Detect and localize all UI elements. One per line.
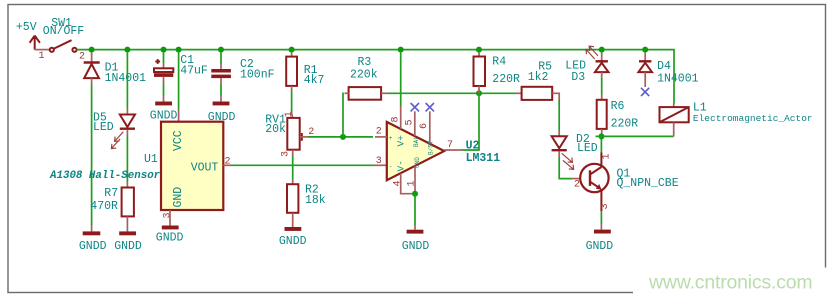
- svg-text:8: 8: [390, 116, 401, 122]
- node rail junction R4: [476, 47, 482, 53]
- relay coil L1 Electromagnetic_Actor: [660, 102, 813, 137]
- svg-text:LM311: LM311: [466, 152, 501, 165]
- svg-text:U1: U1: [144, 153, 158, 166]
- LED D5: [93, 53, 135, 149]
- resistor R7 470R: [90, 187, 134, 216]
- svg-text:B/ST: B/ST: [428, 140, 435, 155]
- svg-text:Electromagnetic_Actor: Electromagnetic_Actor: [693, 113, 813, 124]
- svg-text:3: 3: [376, 156, 382, 167]
- node U2 gnd junction: [412, 191, 418, 197]
- svg-text:VCC: VCC: [172, 130, 185, 151]
- svg-text:R7: R7: [104, 187, 118, 200]
- wire U2 pin 8 to rail: [400, 53, 402, 106]
- node output/R4 junction: [476, 90, 482, 96]
- svg-text:2: 2: [376, 127, 382, 138]
- svg-text:5: 5: [404, 119, 415, 125]
- svg-text:3: 3: [280, 151, 291, 157]
- node rail junction D5: [124, 47, 130, 53]
- svg-text:R3: R3: [358, 56, 372, 69]
- svg-text:D4: D4: [657, 60, 671, 73]
- svg-text:1: 1: [39, 51, 45, 62]
- wire R3 right (output node): [381, 92, 386, 94]
- wire C2 to ground: [220, 78, 222, 84]
- wire D1 to ground: [91, 78, 93, 84]
- svg-text:2: 2: [79, 52, 85, 63]
- no-connect X (D4 anode): [641, 88, 649, 96]
- wire R2 to ground: [292, 213, 294, 227]
- op-amp U2 LM311: [387, 122, 500, 180]
- resistor R6 220R: [597, 100, 639, 131]
- svg-text:GNDD: GNDD: [114, 240, 142, 253]
- svg-text:GND: GND: [172, 187, 185, 208]
- wire U2 gnd to ground: [414, 194, 416, 226]
- svg-text:18k: 18k: [305, 194, 326, 207]
- pin 5 stub (U2 balance): [414, 111, 416, 136]
- resistor R4 220R: [474, 53, 521, 94]
- wire R6 to collector node: [601, 129, 603, 137]
- node wiper/R3 junction: [340, 134, 346, 140]
- svg-text:+5V: +5V: [16, 21, 37, 34]
- resistor R5 1k2: [522, 60, 553, 100]
- ground GNDD (U1): [156, 226, 184, 245]
- wire U2 output to R4 node: [444, 149, 462, 151]
- svg-text:V+: V+: [396, 135, 407, 147]
- svg-text:LED: LED: [577, 142, 598, 155]
- svg-text:Q_NPN_CBE: Q_NPN_CBE: [617, 177, 679, 190]
- pin 6 stub (U2 balance/strobe): [429, 111, 431, 143]
- svg-text:LED: LED: [93, 121, 114, 134]
- svg-text:GNDD: GNDD: [150, 109, 178, 122]
- switch SW1 ON/OFF: [43, 17, 85, 52]
- wire +5V rail: [77, 50, 674, 104]
- pin 4 stub (U2 V-): [401, 173, 412, 193]
- LED D2: [552, 133, 598, 169]
- node rail junction D3: [599, 47, 605, 53]
- svg-text:+: +: [389, 135, 393, 142]
- svg-text:4k7: 4k7: [304, 74, 325, 87]
- svg-text:100nF: 100nF: [240, 69, 275, 82]
- svg-text:R4: R4: [492, 55, 506, 68]
- svg-text:BAL: BAL: [413, 136, 420, 147]
- diode D4 1N4001: [638, 53, 698, 87]
- resistor R3 220k: [349, 56, 382, 100]
- ground GNDD (U2): [402, 230, 430, 253]
- wire R5 to D2: [552, 93, 559, 99]
- svg-text:220k: 220k: [350, 69, 378, 82]
- svg-text:470R: 470R: [90, 200, 118, 213]
- node rail junction D4: [642, 47, 648, 53]
- svg-text:220R: 220R: [611, 118, 639, 131]
- svg-text:2: 2: [574, 180, 580, 191]
- node rail junction U1 VCC: [176, 47, 182, 53]
- wire R3 left to + input node: [345, 92, 349, 94]
- wire +5V to SW1 pin 1: [35, 49, 50, 51]
- supply symbol +5V: [16, 21, 40, 49]
- wire RV1 wiper to comparator node: [308, 136, 373, 138]
- svg-text:VOUT: VOUT: [191, 161, 219, 174]
- capacitor C2 100nF: [211, 53, 274, 82]
- svg-text:R6: R6: [611, 100, 625, 113]
- svg-text:www.cntronics.com: www.cntronics.com: [648, 272, 812, 294]
- wire C1 to ground: [163, 77, 165, 83]
- svg-text:20k: 20k: [265, 123, 286, 136]
- svg-text:3: 3: [600, 203, 611, 209]
- svg-text:6: 6: [419, 123, 430, 129]
- svg-text:ON/OFF: ON/OFF: [43, 25, 85, 38]
- node rail junction C1: [161, 47, 167, 53]
- svg-text:1: 1: [407, 180, 418, 186]
- svg-text:GNDD: GNDD: [279, 235, 307, 248]
- svg-text:1N4001: 1N4001: [657, 73, 699, 86]
- ground GNDD (R2): [279, 227, 307, 248]
- capacitor C1 47uF: [154, 53, 208, 78]
- svg-text:220R: 220R: [492, 73, 520, 86]
- svg-text:1k2: 1k2: [528, 71, 549, 84]
- svg-text:47uF: 47uF: [180, 64, 208, 77]
- wire D3 to R6: [601, 72, 603, 78]
- svg-text:A1308 Hall-Sensor: A1308 Hall-Sensor: [49, 170, 161, 182]
- svg-text:GNDD: GNDD: [402, 240, 430, 253]
- wire RV1 bottom to R2: [292, 150, 294, 155]
- ground GNDD (C1): [150, 102, 178, 123]
- node rail junction R1: [289, 47, 295, 53]
- diode D1 1N4001: [84, 53, 146, 86]
- wire collector node to relay: [596, 135, 674, 137]
- svg-text:GNDD: GNDD: [79, 240, 107, 253]
- svg-text:GNDD: GNDD: [156, 231, 184, 244]
- ground GNDD (Q1): [586, 230, 614, 253]
- wire U1 VOUT to U2 pin 3: [223, 164, 231, 166]
- no-connect X pin 5: [411, 103, 419, 111]
- pin 1 stub (U2 GND): [414, 166, 416, 194]
- svg-text:V-: V-: [396, 160, 407, 171]
- no-connect X pin 6: [426, 103, 434, 111]
- resistor R2 18k: [287, 184, 326, 213]
- wire U1 pin 3 to ground: [169, 210, 171, 226]
- svg-text:4: 4: [393, 180, 404, 186]
- pin stub U2 pin 2: [375, 136, 387, 138]
- ground GNDD (R7): [114, 231, 142, 253]
- ground GNDD (C2): [208, 102, 236, 124]
- node rail junction U2 pin 8: [398, 47, 404, 53]
- IC U1 A1308 Hall-Sensor: [49, 122, 223, 210]
- wire Q1 emitter to ground: [600, 211, 602, 224]
- resistor R1 4k7: [286, 53, 324, 87]
- node rail junction C2: [218, 47, 224, 53]
- svg-text:D3: D3: [571, 71, 585, 84]
- svg-text:GNDD: GNDD: [586, 240, 614, 253]
- node collector junction: [599, 133, 605, 139]
- transistor Q1 Q_NPN_CBE: [580, 153, 679, 212]
- watermark backing box: [633, 268, 829, 298]
- wire R7 to ground: [126, 216, 128, 231]
- wire D2 to Q1 base: [558, 151, 560, 157]
- potentiometer RV1 20k: [265, 113, 308, 149]
- svg-text:3: 3: [162, 212, 173, 218]
- wire rail to U1 VCC: [178, 53, 180, 109]
- svg-text:1: 1: [602, 153, 613, 159]
- node rail junction D1: [89, 47, 95, 53]
- svg-text:1: 1: [284, 111, 295, 117]
- wire D5 to R7: [126, 130, 128, 136]
- wire R1 to RV1: [291, 86, 293, 91]
- svg-text:-: -: [389, 164, 393, 171]
- LED D3: [565, 46, 608, 84]
- wire Q1 collector to node: [600, 136, 602, 152]
- svg-text:1N4001: 1N4001: [105, 72, 147, 85]
- ground GNDD (D1): [79, 231, 107, 253]
